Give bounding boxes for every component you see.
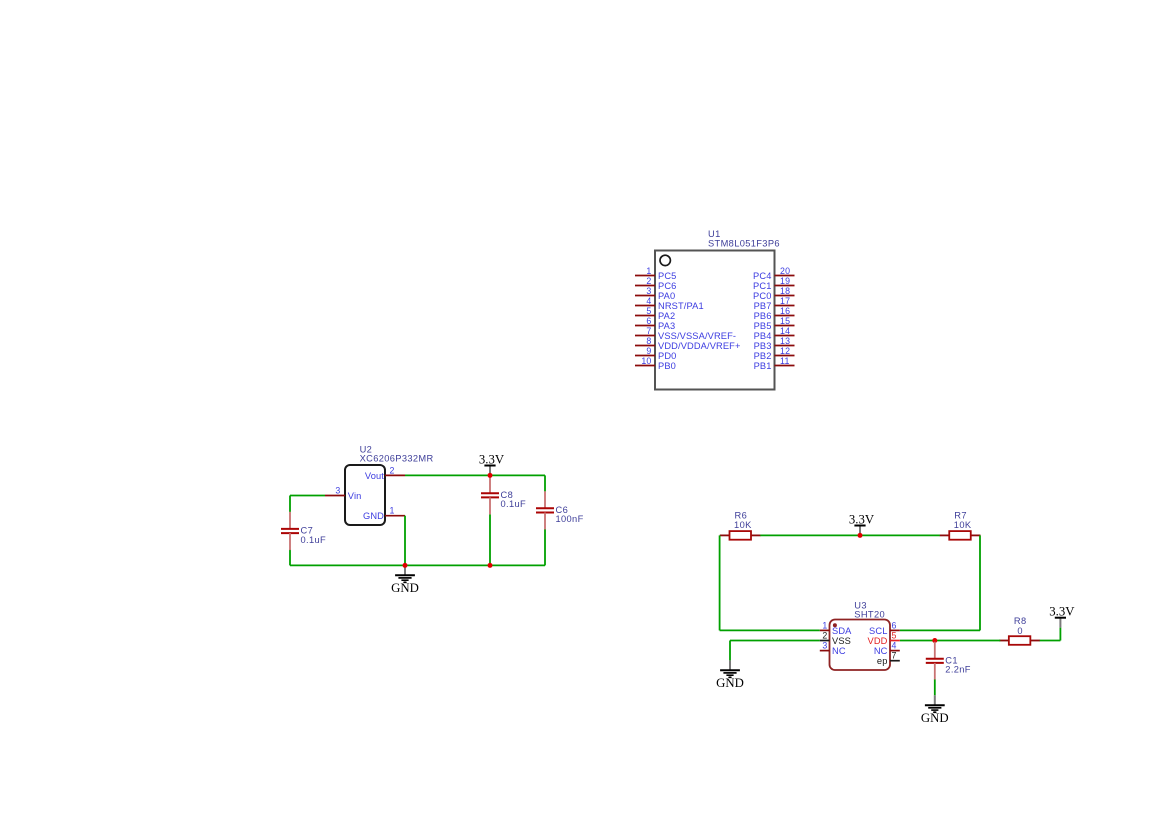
U3 pin 1 SDA xyxy=(820,620,852,635)
svg-text:8: 8 xyxy=(646,336,651,346)
svg-text:VSS: VSS xyxy=(832,636,851,646)
capacitor C1 2.2nF xyxy=(926,642,971,680)
svg-text:PB0: PB0 xyxy=(658,361,676,371)
svg-text:1: 1 xyxy=(822,620,827,630)
junction 3V3 pullup rail xyxy=(858,533,863,538)
svg-text:10K: 10K xyxy=(954,520,972,530)
svg-text:100nF: 100nF xyxy=(556,514,584,524)
svg-text:3: 3 xyxy=(822,641,827,651)
power flag 3.3V above C8 xyxy=(479,452,505,475)
svg-text:0.1uF: 0.1uF xyxy=(301,535,327,545)
svg-text:PB7: PB7 xyxy=(754,301,772,311)
svg-text:7: 7 xyxy=(646,326,651,336)
svg-text:NRST/PA1: NRST/PA1 xyxy=(658,301,704,311)
ground below U3 VSS xyxy=(716,660,744,690)
svg-text:PB6: PB6 xyxy=(754,311,772,321)
svg-text:PB3: PB3 xyxy=(754,341,772,351)
power flag 3.3V right of R8 xyxy=(1049,605,1075,628)
U1 pin 15 PB5 xyxy=(754,316,795,331)
wire net GND bottom rail xyxy=(290,564,545,566)
svg-text:PA0: PA0 xyxy=(658,291,675,301)
U2 pin 2 Vout xyxy=(365,465,405,480)
wire net IN: C7 top to U2 Vin xyxy=(290,495,325,497)
wire net 3V3 between R6 and R7 xyxy=(760,534,940,536)
svg-text:10K: 10K xyxy=(734,520,752,530)
wire net VDD riser vertical xyxy=(1059,628,1061,641)
U1 pin 18 PC0 xyxy=(753,286,794,301)
svg-text:1: 1 xyxy=(390,506,395,516)
svg-text:Vin: Vin xyxy=(348,491,362,501)
U1 pin 7 VSS/VSSA/VREF- xyxy=(635,326,736,341)
svg-text:2: 2 xyxy=(646,276,651,286)
svg-text:PB1: PB1 xyxy=(754,361,772,371)
svg-text:5: 5 xyxy=(892,631,897,641)
svg-text:0.1uF: 0.1uF xyxy=(501,499,527,509)
svg-text:18: 18 xyxy=(780,286,790,296)
U2 value label XC6206P332MR xyxy=(360,454,434,464)
ground below C1 xyxy=(921,695,949,725)
wire net GND C7 bottom segment xyxy=(289,550,291,566)
U1 pin 12 PB2 xyxy=(754,346,795,361)
wire net 3V3 from U2 Vout to C6 top xyxy=(405,474,545,476)
U1 pin 13 PB3 xyxy=(754,336,795,351)
svg-text:SDA: SDA xyxy=(832,626,852,636)
U1 pin 19 PC1 xyxy=(753,276,794,291)
svg-text:4: 4 xyxy=(646,296,651,306)
resistor R6 10K xyxy=(720,511,761,540)
junction GND rail at U2 xyxy=(403,563,408,568)
svg-text:PC1: PC1 xyxy=(753,281,771,291)
svg-text:PA3: PA3 xyxy=(658,321,675,331)
op IC U1 STM8L051F3P6 body xyxy=(655,251,775,390)
ground below U2 xyxy=(391,565,419,595)
U1 pin 5 PA2 xyxy=(635,306,675,321)
wire net GND below C1 xyxy=(934,680,936,696)
svg-text:3: 3 xyxy=(646,286,651,296)
resistor R7 10K xyxy=(940,511,981,540)
U2 pin 3 Vin xyxy=(325,486,361,501)
svg-text:PD0: PD0 xyxy=(658,351,676,361)
svg-text:SCL: SCL xyxy=(869,626,887,636)
svg-text:VDD: VDD xyxy=(868,636,888,646)
svg-text:5: 5 xyxy=(646,306,651,316)
svg-text:9: 9 xyxy=(646,346,651,356)
capacitor C8 0.1uF xyxy=(481,476,526,514)
U1 refdes label xyxy=(708,229,721,239)
U1 pin 17 PB7 xyxy=(754,296,795,311)
U3 pin 7 ep xyxy=(877,651,900,666)
svg-text:GND: GND xyxy=(921,711,949,725)
svg-text:GND: GND xyxy=(716,676,744,690)
svg-text:3: 3 xyxy=(335,486,340,496)
U1 pin 11 PB1 xyxy=(754,356,795,371)
U3 value label SHT20 xyxy=(854,610,885,620)
U3 refdes label xyxy=(854,601,867,611)
svg-text:2: 2 xyxy=(390,465,395,475)
U3 pin 5 VDD xyxy=(868,631,900,646)
svg-text:3.3V: 3.3V xyxy=(479,452,505,466)
wire net GND C8 bottom segment xyxy=(489,514,491,565)
svg-text:2: 2 xyxy=(822,631,827,641)
svg-text:12: 12 xyxy=(780,346,790,356)
svg-text:NC: NC xyxy=(874,646,888,656)
wire net SDA horizontal to U3 pin1 xyxy=(720,629,820,631)
svg-text:10: 10 xyxy=(641,356,651,366)
U3 pin 4 NC xyxy=(874,641,900,656)
U1 pin 3 PA0 xyxy=(635,286,675,301)
U1 pin 10 PB0 xyxy=(635,356,676,371)
svg-text:17: 17 xyxy=(780,296,790,306)
svg-text:1: 1 xyxy=(646,266,651,276)
svg-text:6: 6 xyxy=(646,316,651,326)
svg-text:GND: GND xyxy=(391,581,419,595)
junction 3V3 at C8 xyxy=(488,473,493,478)
U1 pin 20 PC4 xyxy=(753,266,794,281)
U2 pin 1 GND xyxy=(363,506,405,521)
svg-text:7: 7 xyxy=(892,651,897,661)
svg-text:PB2: PB2 xyxy=(754,351,772,361)
U1 pin 8 VDD/VDDA/VREF+ xyxy=(635,336,741,351)
svg-text:Vout: Vout xyxy=(365,471,384,481)
U1 pin 16 PB6 xyxy=(754,306,795,321)
svg-text:PC4: PC4 xyxy=(753,271,771,281)
resistor R8 0 xyxy=(999,616,1040,645)
svg-text:3.3V: 3.3V xyxy=(1049,605,1075,619)
svg-text:3.3V: 3.3V xyxy=(849,512,875,526)
U3 pin 2 VSS xyxy=(820,631,851,646)
svg-text:PC6: PC6 xyxy=(658,281,676,291)
U1 pin 4 NRST/PA1 xyxy=(635,296,704,311)
svg-text:PB4: PB4 xyxy=(754,331,772,341)
wire net SDA: R6 left vertical xyxy=(719,535,721,630)
svg-text:13: 13 xyxy=(780,336,790,346)
capacitor C7 0.1uF xyxy=(281,512,326,550)
svg-text:U1: U1 xyxy=(708,229,721,239)
power flag 3.3V between R6 R7 xyxy=(849,512,875,535)
capacitor C6 100nF xyxy=(536,491,584,529)
svg-text:VDD/VDDA/VREF+: VDD/VDDA/VREF+ xyxy=(658,341,741,351)
svg-text:19: 19 xyxy=(780,276,790,286)
wire net GND C6 bottom segment xyxy=(544,529,546,565)
svg-text:2.2nF: 2.2nF xyxy=(945,665,971,675)
U3 pin 3 NC xyxy=(820,641,846,656)
svg-text:20: 20 xyxy=(780,266,790,276)
svg-text:STM8L051F3P6: STM8L051F3P6 xyxy=(708,239,780,249)
regulator U2 XC6206P332MR body xyxy=(345,465,385,525)
U1 pin 6 PA3 xyxy=(635,316,675,331)
U1 pin 2 PC6 xyxy=(635,276,676,291)
U1 pin 14 PB4 xyxy=(754,326,795,341)
svg-text:11: 11 xyxy=(780,356,790,366)
U3 pin 6 SCL xyxy=(869,620,900,635)
wire net GND to U3 VSS xyxy=(730,640,820,642)
wire net 3V3 vertical into C6 xyxy=(544,475,546,491)
wire net VDD from U3 pin5 to R8 xyxy=(900,640,1001,642)
svg-text:15: 15 xyxy=(780,316,790,326)
U1 value label STM8L051F3P6 xyxy=(708,239,780,249)
svg-text:R8: R8 xyxy=(1014,616,1027,626)
svg-text:NC: NC xyxy=(832,646,846,656)
svg-text:14: 14 xyxy=(780,326,790,336)
svg-text:16: 16 xyxy=(780,306,790,316)
wire net VDD: R8 right to 3.3V riser xyxy=(1040,640,1061,642)
wire net GND vertical at U3 VSS xyxy=(729,641,731,661)
svg-text:SHT20: SHT20 xyxy=(854,610,885,620)
U1 pin 1 PC5 xyxy=(635,266,676,281)
svg-text:PB5: PB5 xyxy=(754,321,772,331)
wire net IN vertical into C7 xyxy=(289,496,291,512)
svg-text:PA2: PA2 xyxy=(658,311,675,321)
wire net SCL: R7 right vertical xyxy=(979,535,981,630)
junction GND rail at C8 xyxy=(488,563,493,568)
svg-text:ep: ep xyxy=(877,656,888,666)
U1 pin 9 PD0 xyxy=(635,346,676,361)
wire net GND from U2 pin1 down xyxy=(404,516,406,566)
svg-text:4: 4 xyxy=(892,641,897,651)
svg-text:GND: GND xyxy=(363,511,384,521)
svg-text:XC6206P332MR: XC6206P332MR xyxy=(360,454,434,464)
svg-text:PC5: PC5 xyxy=(658,271,676,281)
wire net SCL horizontal to U3 pin6 xyxy=(900,629,980,631)
junction VDD at C1 xyxy=(932,638,937,643)
svg-text:6: 6 xyxy=(892,620,897,630)
svg-text:0: 0 xyxy=(1017,626,1023,636)
svg-text:VSS/VSSA/VREF-: VSS/VSSA/VREF- xyxy=(658,331,736,341)
svg-text:PC0: PC0 xyxy=(753,291,771,301)
sensor U3 SHT20 body xyxy=(830,620,891,671)
U2 refdes label xyxy=(360,445,373,455)
